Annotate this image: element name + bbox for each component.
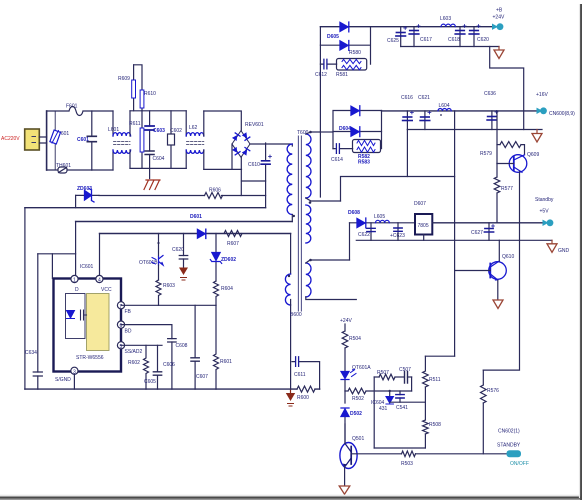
wire VCC pin riser (99, 234, 101, 280)
diode D604b (333, 127, 382, 137)
wire +5V rail (432, 222, 546, 224)
svg-text:R603: R603 (163, 283, 175, 289)
IC601 pin 1 (71, 275, 79, 293)
capacitor C622 (358, 223, 375, 241)
svg-text:+5V: +5V (540, 209, 550, 215)
resistor R502 (345, 388, 412, 402)
wire filter bottom rail (130, 167, 186, 169)
svg-text:+24V: +24V (493, 15, 505, 21)
wire R507 box verticals (374, 377, 411, 448)
transformer secondary winding lower (standby) (306, 259, 357, 300)
optocoupler OT601A (LED) (341, 365, 371, 391)
wire Q610 emitter + ground (493, 281, 503, 309)
svg-text:+B: +B (496, 8, 503, 14)
svg-text:L605: L605 (374, 214, 385, 220)
capacitor C541 (396, 391, 408, 411)
IC601 pin 3 S/GND (55, 367, 78, 383)
wire Q501 emitter + ground (339, 467, 350, 494)
IC601 body STR-W6556 (76, 294, 109, 362)
svg-text:R583: R583 (358, 160, 370, 166)
svg-text:Standby: Standby (535, 197, 554, 203)
wire Q610 collector (498, 240, 500, 261)
wire drain rail C (76, 221, 293, 223)
capacitor C614 (331, 144, 353, 163)
svg-text:C618: C618 (448, 37, 460, 43)
wire L62 bottom rail (204, 168, 242, 170)
svg-text:R507: R507 (377, 370, 389, 376)
wire left primary return (24, 208, 26, 389)
wire R508 bottom loop (374, 447, 425, 449)
wire standby row (351, 453, 507, 455)
capacitor C602 (168, 111, 183, 169)
capacitor C604 (145, 151, 165, 179)
wire +16V sense column (454, 111, 456, 356)
resistor R606 (99, 188, 266, 199)
svg-text:R503: R503 (401, 461, 413, 467)
diode D605a (340, 22, 349, 32)
terminal +B +24V (492, 8, 505, 31)
regulator D607 7805 (414, 201, 432, 240)
wire Q609 emitter down (519, 172, 521, 223)
svg-text:R607: R607 (227, 241, 239, 247)
wire input verticals (46, 111, 48, 170)
resistor R600 (297, 386, 315, 401)
capacitor C620b (469, 25, 489, 47)
svg-text:+16V: +16V (536, 92, 548, 98)
svg-text:R576: R576 (487, 388, 499, 394)
capacitor C618 (448, 25, 466, 47)
svg-text:C611: C611 (294, 372, 306, 378)
wire pin3 to ground rail (73, 374, 75, 389)
svg-text:C634: C634 (25, 350, 37, 356)
wire row2 gnd to winding return (406, 130, 408, 177)
terminal +16V CN600 (536, 92, 575, 117)
capacitor C620 (172, 234, 188, 268)
svg-text:ON/OFF: ON/OFF (510, 461, 529, 467)
inductor L62 (common-mode choke) (186, 111, 204, 170)
svg-text:Q610: Q610 (502, 254, 514, 260)
resistor R508 (423, 402, 442, 448)
svg-text:ZD602: ZD602 (221, 257, 236, 263)
svg-text:FB: FB (125, 309, 132, 315)
svg-text:D: D (75, 287, 79, 293)
resistor R607 (224, 231, 242, 248)
wire ZD603 drop (75, 195, 77, 207)
svg-text:L62: L62 (189, 125, 198, 131)
svg-text:Q501: Q501 (352, 436, 364, 442)
wire primary bottom rail (25, 388, 320, 390)
svg-text:C620: C620 (172, 247, 184, 253)
svg-text:C541: C541 (396, 405, 408, 411)
svg-text:IC601: IC601 (80, 264, 94, 270)
wire +16V rail (382, 110, 542, 112)
svg-text:C604: C604 (153, 156, 165, 162)
zener diode ZD603 (76, 186, 99, 202)
ground C620 (red solid) (179, 268, 188, 281)
diode D602 (on VCC rail) (198, 229, 206, 238)
resistor R511 (423, 356, 441, 402)
capacitor C617 (409, 25, 432, 47)
diode D605b (parallel) (320, 27, 370, 64)
svg-text:+24V: +24V (340, 318, 352, 324)
svg-text:D605: D605 (327, 34, 339, 40)
svg-text:4: 4 (98, 278, 101, 284)
shunt regulator IC604 (371, 390, 393, 412)
svg-text:VCC: VCC (101, 287, 112, 293)
svg-text:B600: B600 (290, 312, 302, 318)
resistor R601 (214, 305, 233, 389)
transistor Q609 (497, 152, 539, 173)
wire drain rail B (25, 207, 266, 209)
inductor L604 (438, 103, 451, 116)
svg-text:REV601: REV601 (245, 122, 264, 128)
wire FB line (121, 304, 216, 306)
capacitor C603 (145, 111, 165, 151)
wire VCC rail (100, 233, 291, 235)
connector AC input (25, 129, 47, 150)
resistor R504 (342, 324, 361, 371)
resistors R582 R583 (parallel pair) (353, 140, 381, 166)
resistor R611 (129, 111, 144, 169)
fuse F601 (47, 104, 113, 116)
wire BD line (121, 324, 172, 326)
svg-text:C608: C608 (176, 343, 188, 349)
svg-text:7805: 7805 (418, 223, 429, 229)
wire D604 feed (320, 131, 333, 133)
svg-text:OT601B: OT601B (139, 260, 158, 266)
wire secondary feed column (319, 27, 321, 197)
svg-text:R610: R610 (144, 91, 156, 97)
wire L62 to bridge top (204, 111, 242, 131)
svg-text:C612: C612 (315, 72, 327, 78)
wire +5V to R576 (483, 223, 519, 370)
svg-text:STANDBY: STANDBY (497, 443, 521, 449)
svg-text:C607: C607 (196, 374, 208, 380)
IC U601 outer box (54, 279, 122, 372)
capacitor C634 (25, 254, 42, 389)
resistors R580 R581 (parallel pair) (336, 50, 367, 78)
svg-text:R580: R580 (349, 50, 361, 56)
svg-text:431: 431 (379, 406, 388, 412)
diode D608 (348, 210, 366, 228)
capacitor C627 (471, 223, 495, 241)
wire snubber link (38, 253, 76, 255)
wire standby rail (350, 222, 416, 224)
capacitor C621 (418, 95, 431, 130)
svg-text:CN600(8,9): CN600(8,9) (549, 111, 575, 117)
transformer secondary winding middle (306, 205, 311, 243)
ground symbol GND (open) (547, 240, 570, 254)
svg-text:C614: C614 (331, 157, 343, 163)
svg-text:D607: D607 (414, 201, 426, 207)
svg-text:R606: R606 (209, 188, 221, 194)
wire bridge output to transformer (250, 144, 292, 146)
inductor L605 (374, 214, 389, 223)
svg-text:L603: L603 (440, 16, 451, 22)
IC601 pin 4 (96, 275, 112, 293)
wire +B top rail (320, 26, 500, 28)
wire bridge bottom vertex down (240, 157, 242, 195)
wire bottom input (92, 169, 113, 171)
svg-text:R508: R508 (429, 422, 441, 428)
ground symbol row2 (open) (532, 130, 542, 143)
svg-text:C602: C602 (170, 128, 182, 134)
svg-text:C625: C625 (387, 38, 399, 44)
zener diode ZD602 (210, 234, 236, 282)
svg-text:SS/AD2: SS/AD2 (125, 349, 143, 355)
inductor L601 (common-mode choke) (108, 111, 131, 170)
svg-text:R577: R577 (501, 186, 513, 192)
svg-text:GND: GND (558, 248, 570, 254)
wire gnd elbow row1-row2 (490, 47, 524, 130)
svg-text:1: 1 (73, 278, 76, 284)
svg-text:R601: R601 (220, 359, 232, 365)
transformer secondary winding upper (306, 131, 341, 204)
transformer aux winding (285, 234, 290, 390)
svg-text:C603: C603 (153, 128, 165, 134)
capacitor C610 (248, 143, 272, 208)
wire TL431 ref line (390, 401, 426, 403)
svg-text:C605: C605 (144, 379, 156, 385)
IC601 pin 7 FB (117, 302, 131, 315)
chassis ground (red) (144, 180, 160, 190)
transformer primary winding (287, 144, 295, 222)
capacitor C601 (77, 111, 96, 170)
resistor R610 (134, 65, 157, 111)
wire +16V row ground rail (407, 129, 542, 131)
transistor Q610 (455, 254, 515, 281)
optocoupler OT601B (139, 234, 163, 281)
svg-text:C636: C636 (484, 91, 496, 97)
svg-text:C620: C620 (477, 37, 489, 43)
svg-text:R504: R504 (349, 336, 361, 342)
svg-text:C622: C622 (358, 232, 370, 238)
IC601 pin 6 BD (117, 321, 131, 335)
capacitor C612 (315, 59, 337, 78)
svg-text:R579: R579 (480, 151, 492, 157)
capacitor C616 (401, 95, 413, 130)
svg-text:C621: C621 (418, 95, 430, 101)
svg-text:R511: R511 (429, 377, 441, 383)
terminal Standby +5V (535, 197, 554, 226)
resistor R604 (214, 281, 234, 305)
diode D604a (333, 106, 382, 149)
wire box drop (51, 254, 53, 279)
svg-text:R502: R502 (352, 396, 364, 402)
svg-text:Q609: Q609 (527, 152, 539, 158)
capacitor C611 (292, 357, 320, 389)
capacitor C636 (484, 91, 498, 130)
resistor R609 (118, 65, 136, 111)
resistor R576 (481, 370, 500, 454)
resistor R579 (480, 142, 525, 157)
svg-text:STR-W6556: STR-W6556 (76, 355, 104, 361)
bridge rectifier REV601 (232, 122, 264, 157)
resistor R602 (128, 345, 149, 389)
svg-text:C617: C617 (420, 37, 432, 43)
svg-text:R581: R581 (336, 72, 348, 78)
svg-text:CN602(1): CN602(1) (498, 429, 520, 435)
resistor R503 (401, 451, 416, 467)
svg-text:R611: R611 (129, 121, 141, 127)
wire sense elbow (425, 355, 454, 357)
wire bridge left vertex to bottom rail (231, 144, 233, 169)
resistor R507 loop (374, 370, 404, 380)
svg-text:R604: R604 (221, 286, 233, 292)
resistor R603 (156, 280, 175, 305)
svg-text:C616: C616 (401, 95, 413, 101)
svg-text:D608: D608 (348, 210, 360, 216)
capacitor C607 (191, 305, 208, 389)
wire pin1 riser (75, 222, 77, 280)
svg-text:R602: R602 (128, 360, 140, 366)
wire filter top rail (130, 110, 186, 112)
IC601 pin 5 SS (117, 342, 142, 355)
svg-text:C606: C606 (163, 362, 175, 368)
wire R579 column from +16V (496, 111, 498, 164)
svg-text:AC220V: AC220V (1, 136, 20, 142)
svg-text:D601: D601 (190, 214, 202, 220)
capacitor C623 (390, 223, 405, 241)
zener diode D502 (341, 391, 362, 443)
transistor Q501 (340, 424, 365, 469)
ground symbol row1 (open) (494, 47, 504, 59)
wire D604 cathode column (381, 111, 383, 149)
svg-text:C627: C627 (471, 230, 483, 236)
wire standby ground rail (356, 239, 552, 241)
wire C610 bottom link (242, 180, 266, 182)
svg-text:BD: BD (125, 329, 132, 335)
svg-text:L601: L601 (108, 127, 119, 133)
svg-text:R609: R609 (118, 76, 130, 82)
svg-text:S/GND: S/GND (55, 377, 71, 383)
resistor R577 (494, 164, 513, 223)
terminal CN602 STANDBY ON/OFF (497, 429, 529, 468)
wire SS line (121, 344, 162, 346)
capacitor C507 (399, 367, 412, 383)
capacitor C608 (168, 325, 188, 390)
wire standby feed (349, 223, 351, 260)
wire +24V row ground rail (401, 46, 499, 48)
svg-text:R600: R600 (297, 395, 309, 401)
varistor V601 (50, 111, 70, 170)
svg-text:C610: C610 (248, 162, 260, 168)
transformer core (298, 136, 301, 311)
svg-text:D502: D502 (350, 411, 362, 417)
inductor L603 (440, 16, 455, 27)
IC601 internal circuit (66, 294, 87, 339)
primary ground (red solid) (286, 389, 295, 406)
capacitor C605 C606 (144, 345, 175, 389)
thermistor TH601 (47, 163, 92, 173)
capacitor C625 (387, 27, 407, 47)
